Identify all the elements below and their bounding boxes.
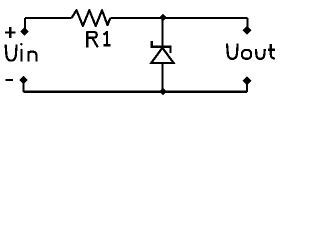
wire bottom rail [24, 91, 248, 93]
wire left input stub (bottom) [22, 80, 24, 92]
label plus sign [5, 27, 15, 38]
label Vout [227, 43, 275, 59]
node output + terminal [243, 26, 252, 35]
wire top rail right segment [110, 17, 247, 19]
wire right output stub (top) [246, 18, 248, 30]
junction top rail [159, 14, 167, 22]
junction bottom rail [159, 88, 167, 96]
wire zener vertical (top) [161, 18, 163, 46]
label minus sign [5, 79, 13, 81]
wire left input stub (top) [24, 18, 26, 32]
node output - terminal [243, 76, 252, 85]
resistor R1 [72, 10, 111, 26]
zener diode [151, 41, 174, 63]
node input - terminal [19, 76, 28, 85]
wire zener vertical (bottom) [161, 64, 163, 92]
label Vin [6, 43, 37, 62]
wire right output stub (bottom) [246, 81, 248, 92]
label R1 [87, 32, 111, 48]
node input + terminal [20, 27, 29, 36]
wire top rail left segment [25, 17, 72, 19]
